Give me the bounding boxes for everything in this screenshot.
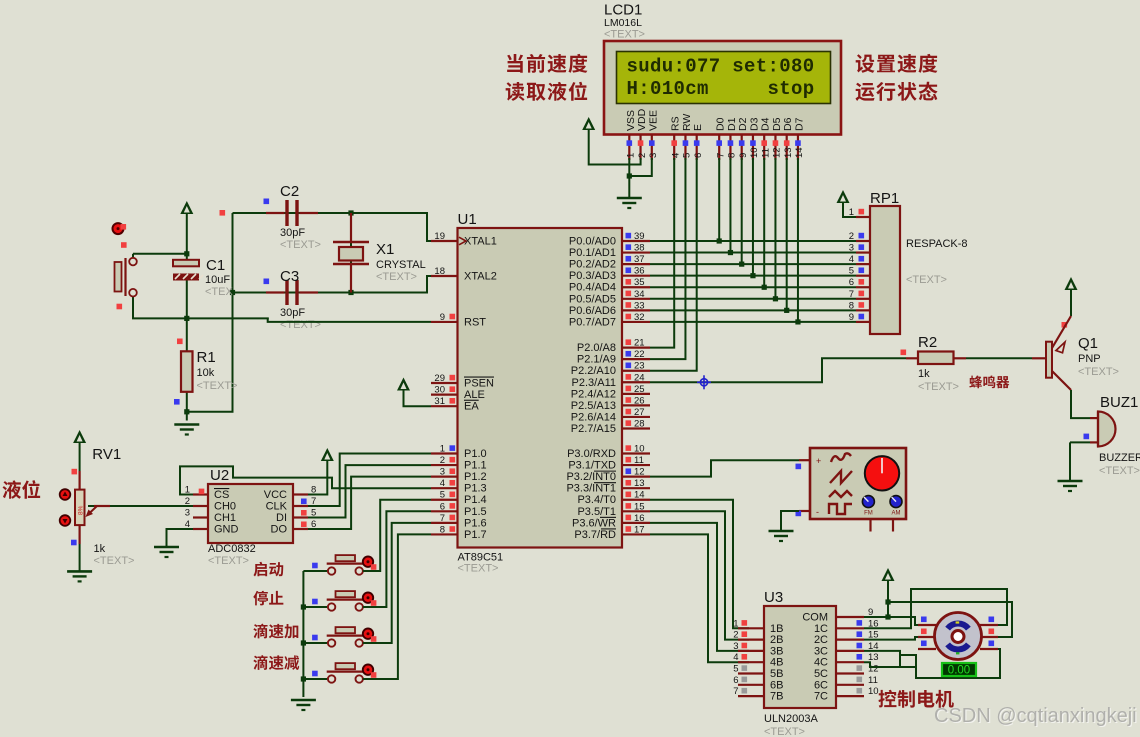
U1 pin 17 P3.7/RD bbox=[622, 533, 650, 535]
U1 pin 3 P1.2 bbox=[431, 476, 458, 478]
svg-text:CH1: CH1 bbox=[214, 512, 236, 524]
U1 pin 1 P1.0 bbox=[431, 452, 458, 454]
svg-text:7: 7 bbox=[849, 289, 854, 300]
RV1 adjust down knob bbox=[60, 515, 71, 526]
U1 pin 38 P0.1/AD1 bbox=[622, 251, 650, 253]
svg-text:31: 31 bbox=[434, 396, 445, 407]
Chinese label 当前速度 bbox=[507, 54, 587, 73]
wire buzzer bottom bbox=[1070, 441, 1090, 443]
svg-text:X1: X1 bbox=[376, 241, 394, 258]
junction D5/P0.5 bbox=[773, 296, 778, 301]
svg-text:BUZ1: BUZ1 bbox=[1100, 394, 1138, 411]
svg-text:VEE: VEE bbox=[647, 110, 659, 131]
svg-text:3: 3 bbox=[648, 153, 659, 158]
svg-text:P1.7: P1.7 bbox=[464, 529, 487, 541]
wire button bottom / RST net left bbox=[133, 297, 269, 318]
junction D4/P0.4 bbox=[762, 285, 767, 290]
RP1 pin 2 bbox=[856, 240, 870, 242]
svg-text:PSEN: PSEN bbox=[464, 378, 494, 390]
signal generator body bbox=[810, 448, 906, 519]
ground below U2 bbox=[154, 546, 179, 549]
svg-text:P1.4: P1.4 bbox=[464, 494, 487, 506]
U1 pin 15 P3.5/T1 bbox=[622, 510, 650, 512]
svg-text:D4: D4 bbox=[760, 117, 772, 131]
svg-text:P1.0: P1.0 bbox=[464, 448, 487, 460]
svg-text:P3.1/TXD: P3.1/TXD bbox=[568, 460, 616, 472]
U1 pin 30 ALE bbox=[431, 394, 458, 396]
svg-text:sudu:077 set:080: sudu:077 set:080 bbox=[627, 56, 815, 78]
svg-text:11: 11 bbox=[760, 148, 771, 158]
wire VDD pin2 to power bbox=[589, 130, 641, 165]
wire power to motor left top bbox=[888, 617, 920, 625]
motor pin squares left bbox=[921, 617, 927, 623]
svg-text:<TEXT>: <TEXT> bbox=[208, 555, 249, 567]
svg-text:7C: 7C bbox=[814, 691, 828, 703]
wire P3.5 to U3 2B bbox=[650, 511, 749, 639]
motor speed display 0.00 bbox=[942, 663, 976, 676]
svg-text:P0.7/AD7: P0.7/AD7 bbox=[569, 316, 616, 328]
svg-text:D2: D2 bbox=[737, 117, 749, 131]
siggen red knob bbox=[865, 456, 899, 490]
siggen waveform icons bbox=[829, 453, 852, 514]
svg-text:25: 25 bbox=[634, 384, 645, 395]
power bbox=[582, 117, 595, 130]
svg-text:12: 12 bbox=[634, 467, 645, 478]
svg-text:29: 29 bbox=[434, 373, 445, 384]
wire U2 DO to P1.2 bbox=[308, 477, 431, 529]
wire LCD RS to U1 P2.0 bbox=[650, 158, 674, 348]
svg-text:EA: EA bbox=[464, 401, 479, 413]
wire button top bbox=[133, 253, 187, 255]
Chinese label 启动 bbox=[253, 562, 283, 577]
svg-text:6B: 6B bbox=[770, 679, 783, 691]
U1 pin 31 EA bbox=[431, 405, 458, 407]
svg-text:CH0: CH0 bbox=[214, 501, 236, 513]
svg-text:P3.3/INT1: P3.3/INT1 bbox=[566, 483, 616, 495]
svg-text:2: 2 bbox=[733, 630, 738, 641]
wire C1 to R1 bbox=[186, 280, 188, 351]
wire P3.2 to signal generator + bbox=[650, 460, 799, 476]
svg-text:COM: COM bbox=[802, 612, 828, 624]
Chinese label buzzer 蜂鸣器 bbox=[969, 376, 1009, 389]
svg-text:R2: R2 bbox=[918, 334, 937, 351]
svg-text:D3: D3 bbox=[748, 117, 760, 131]
svg-text:10: 10 bbox=[749, 147, 760, 158]
wire U2 CS to P1.3 bbox=[180, 466, 431, 494]
U3 pin 13 4C bbox=[836, 661, 864, 663]
svg-text:P2.2/A10: P2.2/A10 bbox=[571, 365, 616, 377]
wire LCD D2 to P0.2 bus bbox=[741, 158, 743, 264]
svg-text:<TEXT>: <TEXT> bbox=[906, 274, 947, 286]
svg-text:<TEXT>: <TEXT> bbox=[94, 555, 135, 567]
U2 pin 6 DO bbox=[293, 528, 308, 530]
svg-text:ALE: ALE bbox=[464, 389, 485, 401]
wire power to Q1 emitter bbox=[1070, 290, 1072, 316]
wire U2 CLK to P1.0 bbox=[308, 454, 431, 507]
svg-text:4: 4 bbox=[849, 254, 854, 265]
junction motor power A bbox=[885, 599, 890, 604]
svg-text:10uF: 10uF bbox=[205, 274, 230, 286]
svg-text:11: 11 bbox=[868, 675, 878, 686]
junction D3/P0.3 bbox=[750, 273, 755, 278]
junction D7/P0.7 bbox=[795, 319, 800, 324]
svg-text:RV1: RV1 bbox=[92, 446, 121, 463]
driver U3 ULN2003A body bbox=[764, 606, 836, 708]
svg-text:5: 5 bbox=[733, 664, 738, 675]
svg-text:+: + bbox=[816, 456, 821, 466]
svg-text:P3.0/RXD: P3.0/RXD bbox=[567, 448, 616, 460]
power bbox=[397, 378, 410, 391]
U1 pin 10 P3.0/RXD bbox=[622, 452, 650, 454]
LCD screen bbox=[617, 52, 831, 104]
svg-text:19: 19 bbox=[434, 231, 445, 242]
siggen bottom stubs bbox=[869, 519, 871, 532]
ground below LCD bbox=[617, 197, 642, 200]
Chinese label 滴速减 bbox=[253, 655, 299, 670]
push button 启动 bbox=[336, 555, 356, 561]
U1 pin 12 P3.2/INT0 bbox=[622, 476, 650, 478]
push button 停止 bbox=[336, 591, 356, 597]
svg-text:1B: 1B bbox=[770, 623, 783, 635]
svg-text:15: 15 bbox=[634, 501, 645, 512]
push button 滴速加 bbox=[336, 627, 356, 633]
wire R2 to Q1 base bbox=[966, 357, 1032, 359]
siggen AM knob bbox=[890, 496, 902, 508]
ground below buzzer bbox=[1058, 480, 1083, 483]
button 3 red knob bbox=[363, 629, 373, 639]
svg-text:H:010cm stop: H:010cm stop bbox=[627, 78, 815, 100]
U1 pin 22 P2.1/A9 bbox=[622, 358, 650, 360]
svg-text:P1.5: P1.5 bbox=[464, 506, 487, 518]
wire RP1 pin1 to power bbox=[843, 203, 856, 217]
svg-text:9: 9 bbox=[738, 153, 749, 158]
junction button bus 4 bbox=[301, 676, 306, 681]
svg-text:6: 6 bbox=[849, 277, 854, 288]
svg-text:P0.2/AD2: P0.2/AD2 bbox=[569, 259, 616, 271]
svg-text:2C: 2C bbox=[814, 634, 828, 646]
svg-text:28: 28 bbox=[634, 419, 645, 430]
RP1 pin 3 bbox=[856, 251, 870, 253]
svg-text:<TEXT>: <TEXT> bbox=[604, 29, 645, 41]
svg-text:1: 1 bbox=[440, 444, 445, 455]
svg-text:RS: RS bbox=[670, 116, 682, 131]
svg-text:R1: R1 bbox=[197, 349, 216, 366]
U2 pin 8 VCC bbox=[293, 493, 308, 495]
svg-text:8: 8 bbox=[849, 300, 854, 311]
svg-text:P3.7/RD: P3.7/RD bbox=[574, 529, 616, 541]
svg-text:AM: AM bbox=[892, 511, 901, 517]
wire VSS pin1 to ground bbox=[628, 158, 630, 198]
svg-text:D0: D0 bbox=[715, 117, 727, 131]
ground below R1 bbox=[174, 423, 199, 426]
wire P0.4 row to RP1 pin 6 bbox=[650, 286, 856, 288]
potentiometer RV1 body bbox=[75, 490, 85, 525]
wire power to motor right mid bbox=[888, 602, 1012, 637]
wire U3 COM bbox=[864, 616, 888, 618]
U3 pin 5 5B bbox=[738, 672, 764, 674]
svg-text:9: 9 bbox=[849, 312, 854, 323]
Chinese label 液位 bbox=[3, 480, 41, 499]
U1 pin 8 P1.7 bbox=[431, 533, 458, 535]
wire U3 2C to motor left mid bbox=[864, 637, 920, 640]
U3 pin 14 3C bbox=[836, 650, 864, 652]
button 1 red knob bbox=[363, 557, 373, 567]
LCD LCD1 body bbox=[604, 41, 841, 135]
svg-text:6C: 6C bbox=[814, 679, 828, 691]
svg-text:4B: 4B bbox=[770, 657, 783, 669]
wire U3 1C to motor right top bbox=[864, 589, 1007, 628]
U3 pin 3 3B bbox=[738, 650, 764, 652]
svg-text:P1.3: P1.3 bbox=[464, 483, 487, 495]
U1 pin 19 XTAL1 bbox=[431, 240, 458, 242]
svg-text:8: 8 bbox=[727, 153, 738, 158]
svg-text:23: 23 bbox=[634, 361, 645, 372]
capacitor C1 electrolytic bbox=[173, 260, 199, 267]
U3 pin 9 COM bbox=[836, 616, 864, 618]
svg-text:P2.0/A8: P2.0/A8 bbox=[577, 342, 616, 354]
buzzer BUZ1 bbox=[1090, 417, 1098, 419]
U1 pin 13 P3.3/INT1 bbox=[622, 487, 650, 489]
svg-text:LCD1: LCD1 bbox=[604, 2, 642, 19]
svg-text:D7: D7 bbox=[793, 117, 805, 131]
XTAL1 clock marker bbox=[459, 237, 466, 245]
svg-text:P2.5/A13: P2.5/A13 bbox=[571, 400, 616, 412]
svg-text:0.00: 0.00 bbox=[948, 665, 970, 677]
U1 pin 7 P1.6 bbox=[431, 522, 458, 524]
motor pin squares right bbox=[989, 617, 995, 623]
U1 pin 4 P1.3 bbox=[431, 487, 458, 489]
U3 pin 4 4B bbox=[738, 661, 764, 663]
wire buzzer to ground bbox=[1069, 442, 1071, 481]
svg-text:4: 4 bbox=[670, 153, 681, 158]
U1 pin 6 P1.5 bbox=[431, 510, 458, 512]
RP1 pin 5 bbox=[856, 275, 870, 277]
RP1 pin 8 bbox=[856, 309, 870, 311]
svg-text:D1: D1 bbox=[726, 117, 738, 131]
power bbox=[180, 201, 193, 214]
svg-text:30: 30 bbox=[434, 385, 445, 396]
U2 pin 3 CH1 bbox=[193, 516, 208, 518]
svg-text:27: 27 bbox=[634, 407, 645, 418]
svg-text:11: 11 bbox=[634, 455, 644, 466]
svg-text:CSDN @cqtianxingkeji: CSDN @cqtianxingkeji bbox=[934, 705, 1137, 727]
svg-text:RST: RST bbox=[464, 316, 486, 328]
transistor Q1 PNP bbox=[1046, 342, 1052, 378]
U1 pin 11 P3.1/TXD bbox=[622, 464, 650, 466]
svg-text:XTAL2: XTAL2 bbox=[464, 271, 497, 283]
svg-text:P0.0/AD0: P0.0/AD0 bbox=[569, 236, 616, 248]
svg-text:39: 39 bbox=[634, 231, 645, 242]
svg-text:P0.1/AD1: P0.1/AD1 bbox=[569, 247, 616, 259]
U2 pin 1 CS bbox=[193, 493, 208, 495]
U2 pin 4 GND bbox=[193, 528, 208, 530]
svg-text:13: 13 bbox=[783, 147, 794, 158]
svg-text:GND: GND bbox=[214, 524, 239, 536]
svg-text:P3.4/T0: P3.4/T0 bbox=[577, 494, 616, 506]
svg-text:P2.6/A14: P2.6/A14 bbox=[571, 411, 616, 423]
wire C3 to XTAL2 bbox=[233, 276, 432, 293]
U1 pin 21 P2.0/A8 bbox=[622, 347, 650, 349]
ground below RV1 bbox=[67, 570, 92, 573]
svg-text:P3.2/INT0: P3.2/INT0 bbox=[566, 471, 616, 483]
svg-text:-: - bbox=[816, 507, 819, 517]
junction bus/C3 bbox=[230, 290, 235, 295]
wire EA to power bbox=[404, 391, 432, 407]
junction X1/C3 net bbox=[348, 290, 353, 295]
wire siggen - to ground bbox=[781, 511, 799, 531]
U2 pin 2 CH0 bbox=[193, 505, 208, 507]
svg-text:14: 14 bbox=[634, 490, 645, 501]
wire 3C loop under motor bbox=[900, 649, 1000, 678]
svg-text:4: 4 bbox=[733, 652, 738, 663]
junction VSS/VEE bbox=[627, 173, 632, 178]
svg-text:ULN2003A: ULN2003A bbox=[764, 713, 818, 725]
junction X1/C2 net bbox=[348, 210, 353, 215]
wire LCD D6 to P0.6 bus bbox=[786, 158, 788, 310]
resistor pack RP1 RESPACK-8 body bbox=[870, 206, 900, 334]
svg-text:8: 8 bbox=[440, 524, 445, 535]
capacitor C2 bbox=[266, 212, 285, 214]
svg-text:<TEX: <TEX bbox=[205, 286, 233, 298]
svg-text:1: 1 bbox=[626, 153, 637, 158]
RV1 wiper arrow bbox=[88, 506, 97, 515]
svg-text:U1: U1 bbox=[458, 211, 477, 228]
junction C1 bottom/RST net bbox=[184, 316, 189, 321]
svg-text:<TEXT>: <TEXT> bbox=[280, 239, 321, 251]
svg-text:<TEXT>: <TEXT> bbox=[376, 271, 417, 283]
U1 pin 36 P0.3/AD3 bbox=[622, 275, 650, 277]
svg-text:37: 37 bbox=[634, 254, 645, 265]
U1 pin 33 P0.6/AD6 bbox=[622, 309, 650, 311]
wire button 3 to P1.6 bbox=[363, 523, 431, 643]
svg-text:<TEXT>: <TEXT> bbox=[458, 563, 499, 575]
svg-text:5: 5 bbox=[849, 266, 854, 277]
U3 pin 2 2B bbox=[738, 638, 764, 640]
RP1 pin 6 bbox=[856, 286, 870, 288]
svg-text:PNP: PNP bbox=[1078, 353, 1101, 365]
Chinese label 滴速加 bbox=[253, 624, 298, 639]
svg-text:1k: 1k bbox=[918, 368, 930, 380]
wire LCD D1 to P0.1 bus bbox=[729, 158, 731, 253]
svg-text:<TEXT>: <TEXT> bbox=[764, 726, 805, 737]
junction button bus 2 bbox=[301, 604, 306, 609]
stepper motor bbox=[918, 613, 998, 660]
wire RST jog bbox=[268, 318, 431, 322]
svg-text:XTAL1: XTAL1 bbox=[464, 236, 497, 248]
Chinese label 控制电机 bbox=[878, 690, 953, 708]
wire button 4 to P1.7 bbox=[363, 534, 431, 679]
resistor R2 bbox=[918, 352, 954, 365]
svg-text:2: 2 bbox=[849, 231, 854, 242]
svg-text:DI: DI bbox=[276, 512, 287, 524]
junction D6/P0.6 bbox=[784, 308, 789, 313]
junction D0/P0.0 bbox=[717, 238, 722, 243]
svg-text:3: 3 bbox=[849, 243, 854, 254]
wire power to RV1 bbox=[79, 443, 81, 471]
U1 pin 34 P0.5/AD5 bbox=[622, 298, 650, 300]
wire button 1 to P1.4 bbox=[363, 500, 431, 571]
U3 pin 16 1C bbox=[836, 627, 864, 629]
svg-text:BUZZER: BUZZER bbox=[1099, 452, 1140, 464]
svg-text:P1.1: P1.1 bbox=[464, 460, 487, 472]
reset button red knob bbox=[113, 223, 124, 234]
wire crystal X1 vertical bbox=[350, 213, 352, 293]
U1 pin 5 P1.4 bbox=[431, 499, 458, 501]
svg-text:7: 7 bbox=[733, 686, 738, 697]
svg-text:P3.5/T1: P3.5/T1 bbox=[577, 506, 616, 518]
wire C2 to XTAL1 bbox=[233, 213, 432, 241]
capacitor C3 bbox=[266, 291, 285, 293]
wire P0.1 row to RP1 pin 3 bbox=[650, 252, 856, 254]
svg-text:32: 32 bbox=[634, 312, 645, 323]
svg-text:P3.6/WR: P3.6/WR bbox=[572, 517, 616, 529]
svg-text:6: 6 bbox=[733, 675, 738, 686]
siggen - terminal bbox=[799, 510, 810, 512]
svg-text:P0.5/AD5: P0.5/AD5 bbox=[569, 293, 616, 305]
U1 pin 26 P2.5/A13 bbox=[622, 404, 650, 406]
RP1 pin 4 bbox=[856, 263, 870, 265]
wire P0.7 row to RP1 pin 9 bbox=[650, 321, 856, 323]
wire power vertical to COM bbox=[887, 581, 889, 617]
svg-text:<TEXT>: <TEXT> bbox=[197, 380, 238, 392]
svg-text:6: 6 bbox=[440, 501, 445, 512]
svg-text:10k: 10k bbox=[197, 367, 215, 379]
svg-text:7B: 7B bbox=[770, 691, 783, 703]
wire LCD D0 to P0.0 bus bbox=[718, 158, 720, 241]
svg-text:10: 10 bbox=[868, 686, 879, 697]
RV1 adjust up knob bbox=[60, 489, 71, 500]
svg-text:14: 14 bbox=[794, 147, 805, 158]
wire Q1 collector to buzzer bbox=[1071, 390, 1090, 418]
crystal X1 bbox=[350, 213, 352, 242]
svg-text:30pF: 30pF bbox=[280, 227, 305, 239]
svg-text:DO: DO bbox=[271, 524, 288, 536]
junction motor power B bbox=[885, 614, 890, 619]
U1 pin 32 P0.7/AD7 bbox=[622, 321, 650, 323]
button 4 red knob bbox=[363, 665, 373, 675]
ADC U2 ADC0832 body bbox=[208, 484, 293, 543]
junction R1/bus ground node bbox=[184, 409, 189, 414]
U1 pin 14 P3.4/T0 bbox=[622, 499, 650, 501]
svg-text:C3: C3 bbox=[280, 268, 299, 285]
svg-text:4C: 4C bbox=[814, 657, 828, 669]
svg-text:1: 1 bbox=[849, 207, 854, 218]
U1 pin 23 P2.2/A10 bbox=[622, 370, 650, 372]
svg-text:36: 36 bbox=[634, 266, 645, 277]
wire button top lead bbox=[132, 254, 134, 257]
svg-text:D5: D5 bbox=[771, 117, 783, 131]
wire button 3 left bbox=[303, 642, 327, 644]
svg-text:<TEXT>: <TEXT> bbox=[1078, 366, 1119, 378]
wire VEE pin3 to ground net bbox=[629, 158, 652, 176]
svg-text:D6: D6 bbox=[782, 117, 794, 131]
svg-text:5C: 5C bbox=[814, 668, 828, 680]
wire P0.3 row to RP1 pin 5 bbox=[650, 275, 856, 277]
svg-text:ADC0832: ADC0832 bbox=[208, 543, 256, 555]
wire LCD E to U1 P2.2 bbox=[650, 158, 697, 371]
svg-text:30pF: 30pF bbox=[280, 307, 305, 319]
Chinese label 设置速度 bbox=[856, 54, 938, 73]
svg-text:LM016L: LM016L bbox=[604, 17, 642, 29]
power bbox=[73, 430, 86, 443]
svg-text:3: 3 bbox=[440, 467, 445, 478]
svg-text:3: 3 bbox=[733, 641, 738, 652]
svg-text:CLK: CLK bbox=[266, 501, 288, 513]
svg-text:5: 5 bbox=[682, 153, 693, 158]
wire R1 to ground bbox=[186, 392, 188, 421]
U1 pin 35 P0.4/AD4 bbox=[622, 286, 650, 288]
U1 pin 9 RST bbox=[431, 321, 458, 323]
